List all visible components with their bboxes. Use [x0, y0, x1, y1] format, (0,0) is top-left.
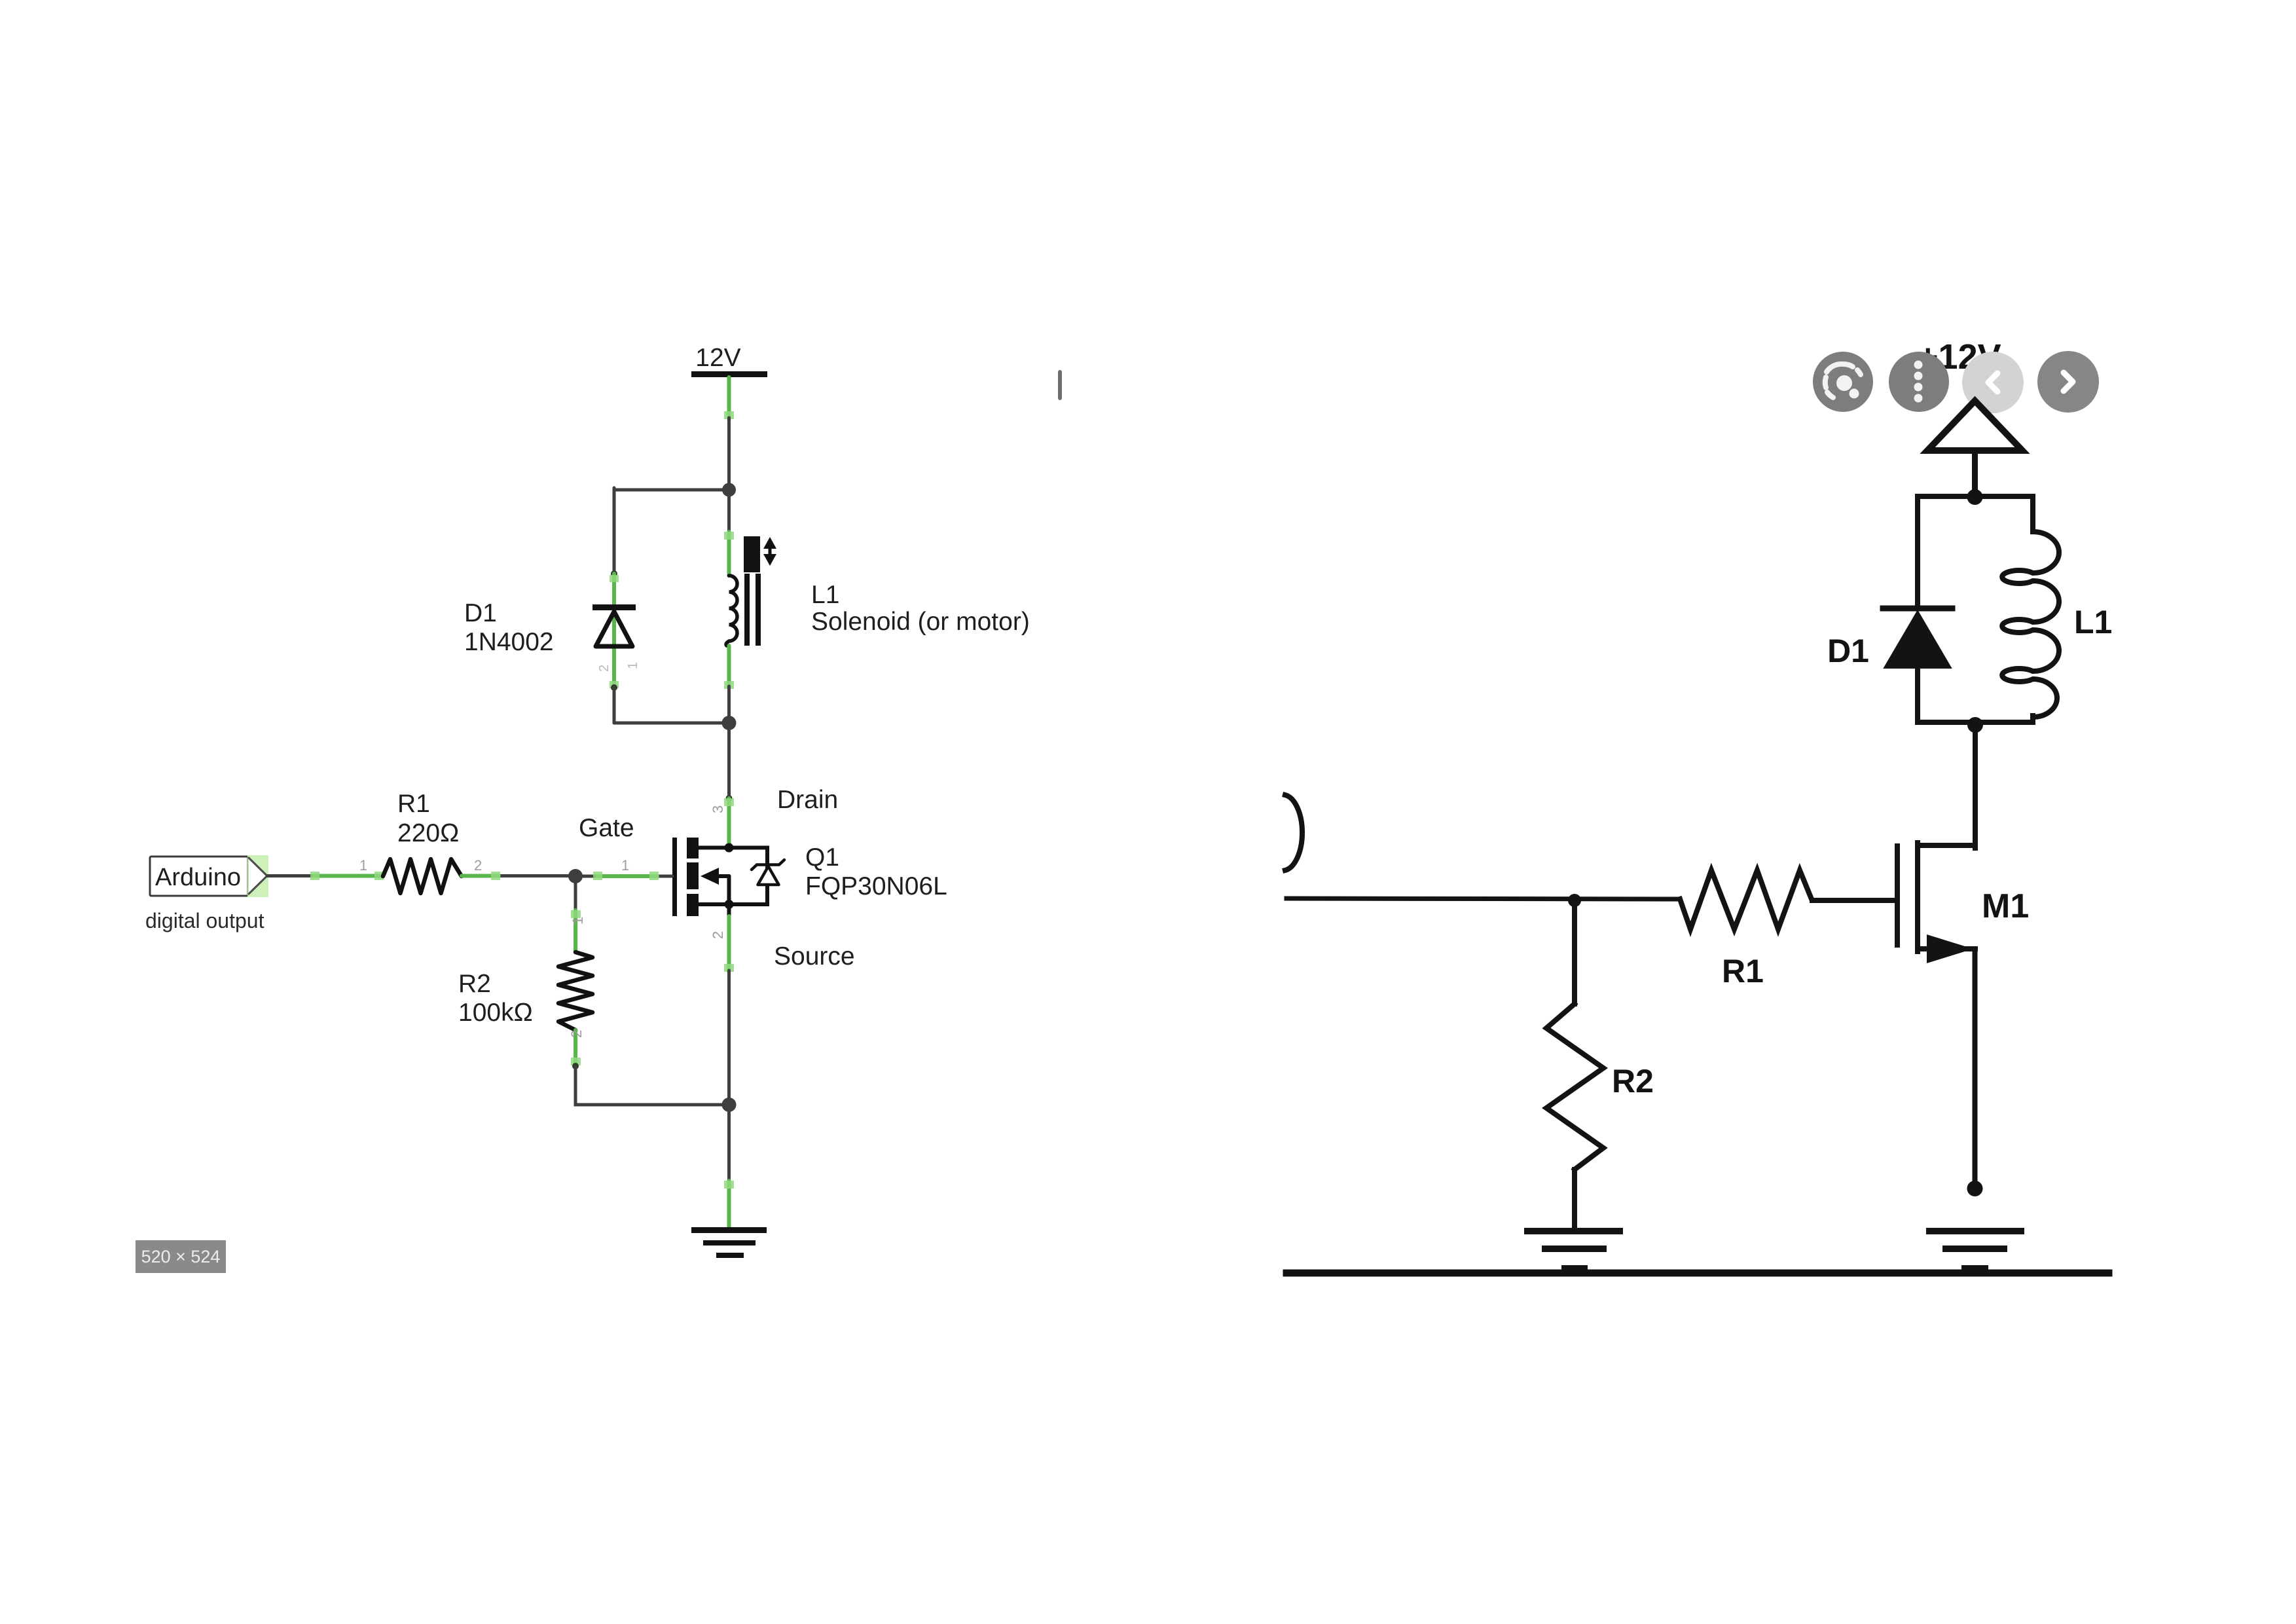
- svg-text:1: 1: [359, 857, 367, 874]
- diode D1 symbol: [592, 604, 636, 610]
- svg-text:Drain: Drain: [777, 786, 838, 814]
- stray gray tick between schematics: [1058, 370, 1062, 400]
- ground: [691, 1227, 767, 1233]
- toolbar button lens: [1813, 352, 1873, 412]
- wire source below MOSFET: [727, 904, 731, 916]
- diode D1 (filled): [1883, 606, 1952, 612]
- inductor L1 coil: [726, 576, 737, 646]
- node gate junction: [568, 869, 583, 883]
- ground right: [1929, 1228, 2021, 1234]
- svg-text:3: 3: [710, 805, 726, 813]
- wire R2 to source rail: [575, 1066, 729, 1105]
- wire Arduino to R1: [267, 874, 383, 877]
- resistor R2: [1546, 1004, 1603, 1170]
- Arduino source block: [150, 857, 248, 896]
- wire to ground: [727, 1105, 731, 1184]
- toolbar button next: [2037, 351, 2099, 413]
- wire gate: [1812, 898, 1897, 903]
- node Q1 source: [725, 900, 734, 909]
- svg-text:Gate: Gate: [579, 814, 634, 842]
- svg-text:1: 1: [570, 917, 586, 925]
- wire top rail of D1/L1 loop: [614, 489, 729, 492]
- wire top rail of loop + branches: [1918, 496, 2033, 606]
- input bracket: [1285, 795, 1302, 870]
- svg-text:R2: R2: [458, 970, 491, 998]
- wire: [727, 418, 731, 490]
- inductor L1 coil: [2002, 532, 2059, 717]
- toolbar button prev: [1962, 352, 2024, 413]
- svg-text:FQP30N06L: FQP30N06L: [805, 872, 947, 900]
- transistor Q1 gate bar: [672, 838, 677, 916]
- transistor Q1 body diode: [758, 866, 779, 885]
- svg-text:R1: R1: [397, 790, 430, 818]
- wire gate from junction: [575, 875, 672, 878]
- svg-text:digital output: digital output: [145, 909, 264, 932]
- svg-text:Q1: Q1: [805, 843, 839, 872]
- 12V supply bar: [691, 371, 767, 377]
- node top junction: [1967, 489, 1983, 505]
- svg-text:2: 2: [568, 1030, 585, 1038]
- wire bottom rail of loop: [1918, 668, 2033, 722]
- svg-text:L1: L1: [2074, 604, 2112, 640]
- node source junction: [1967, 1181, 1983, 1196]
- svg-text:220Ω: 220Ω: [397, 819, 459, 847]
- L1 solenoid plunger: [744, 536, 760, 572]
- svg-text:D1: D1: [464, 599, 497, 627]
- svg-text:Source: Source: [774, 942, 855, 970]
- power +12V triangle: [1927, 401, 2022, 451]
- svg-text:520 × 524: 520 × 524: [141, 1247, 221, 1266]
- wire triangle to junction: [1972, 451, 1978, 496]
- svg-text:D1: D1: [1827, 633, 1869, 669]
- wire L1 branch lower green: [727, 646, 731, 688]
- transistor Q1 channel bars: [687, 838, 699, 858]
- svg-text:100kΩ: 100kΩ: [458, 999, 533, 1027]
- wire junction to drain: [727, 723, 731, 798]
- resistor R1: [1680, 870, 1812, 929]
- wire D1 branch lower: [613, 688, 616, 723]
- transistor Q1 drain/source connection box: [699, 848, 767, 905]
- wire D1 branch upper: [613, 488, 616, 574]
- svg-text:1N4002: 1N4002: [464, 628, 554, 656]
- node gate divider junction: [1568, 894, 1581, 907]
- wire bottom rail of loop: [614, 722, 729, 725]
- svg-text:R1: R1: [1722, 953, 1764, 989]
- svg-text:1: 1: [626, 662, 640, 669]
- svg-text:L1: L1: [811, 581, 839, 609]
- wire junction down to R2: [1572, 900, 1577, 1004]
- svg-text:2: 2: [474, 857, 482, 874]
- wire 12V to top junction (green highlighted): [727, 377, 731, 419]
- svg-text:M1: M1: [1982, 887, 2029, 925]
- wire R2 to ground: [1572, 1170, 1577, 1228]
- Arduino pin highlight: [247, 855, 268, 897]
- node Q1 drain: [725, 843, 734, 853]
- node loop bottom junction: [1967, 717, 1983, 733]
- node top junction: [722, 483, 736, 497]
- wire green through diode: [612, 574, 616, 688]
- resistor R1 zigzag: [383, 859, 462, 893]
- transistor M1: [1918, 843, 1975, 848]
- wire L1 branch upper green: [727, 490, 731, 536]
- svg-text:2: 2: [597, 665, 611, 672]
- transistor Q1 substrate arrow: [716, 874, 729, 878]
- wire R2 bottom green: [574, 1030, 577, 1066]
- ground left: [1527, 1228, 1620, 1234]
- node source junction: [722, 1098, 737, 1112]
- resistor R2 zigzag: [558, 952, 592, 1030]
- wire R1 to gate junction: [462, 874, 575, 877]
- node loop bottom junction: [722, 716, 737, 730]
- wire junction down to R2: [574, 876, 577, 913]
- wire bottom rail: [1286, 1270, 2109, 1277]
- wire input to R1: [1286, 898, 1680, 899]
- svg-text:Solenoid (or motor): Solenoid (or motor): [811, 608, 1030, 636]
- svg-text:2: 2: [710, 931, 726, 939]
- svg-text:1: 1: [621, 857, 629, 874]
- wire drain: [1973, 725, 1978, 848]
- svg-text:12V: 12V: [695, 344, 740, 372]
- toolbar button menu dots: [1889, 352, 1949, 412]
- svg-text:Arduino: Arduino: [155, 864, 241, 891]
- image size badge: [136, 1240, 226, 1273]
- L1 plunger motion arrow: [763, 537, 776, 549]
- L1 core bars: [744, 574, 750, 646]
- svg-text:R2: R2: [1612, 1063, 1654, 1099]
